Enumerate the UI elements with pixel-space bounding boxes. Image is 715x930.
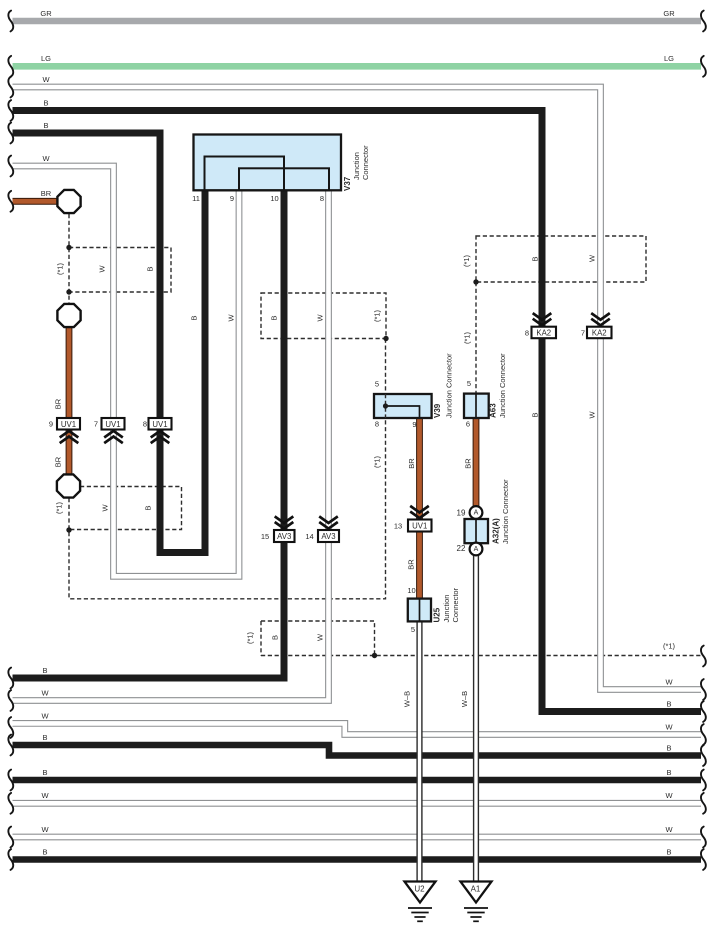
svg-text:UV1: UV1 bbox=[412, 522, 427, 531]
svg-text:Junction Connector: Junction Connector bbox=[501, 479, 510, 544]
svg-text:6: 6 bbox=[466, 420, 470, 429]
svg-text:AV3: AV3 bbox=[321, 532, 335, 541]
svg-text:10: 10 bbox=[407, 586, 415, 595]
svg-text:V39: V39 bbox=[433, 403, 442, 418]
svg-text:KA2: KA2 bbox=[536, 328, 551, 337]
svg-text:BR: BR bbox=[407, 458, 416, 469]
svg-text:Junction: Junction bbox=[442, 595, 451, 623]
svg-text:BR: BR bbox=[54, 398, 63, 409]
svg-text:A63: A63 bbox=[489, 403, 498, 418]
svg-text:Junction: Junction bbox=[352, 152, 361, 180]
svg-text:B: B bbox=[270, 315, 279, 320]
svg-text:5: 5 bbox=[411, 625, 415, 634]
svg-text:GR: GR bbox=[663, 9, 675, 18]
svg-text:A1: A1 bbox=[471, 885, 481, 894]
svg-text:B: B bbox=[666, 743, 671, 752]
svg-text:W: W bbox=[41, 688, 49, 697]
svg-text:W: W bbox=[665, 722, 673, 731]
svg-text:(*1): (*1) bbox=[462, 254, 471, 267]
svg-text:9: 9 bbox=[412, 420, 416, 429]
svg-text:(*1): (*1) bbox=[56, 262, 65, 275]
svg-text:UV1: UV1 bbox=[152, 420, 167, 429]
svg-text:B: B bbox=[666, 768, 671, 777]
svg-text:11: 11 bbox=[192, 194, 200, 203]
svg-text:8: 8 bbox=[320, 194, 324, 203]
svg-text:W: W bbox=[665, 825, 673, 834]
svg-text:13: 13 bbox=[394, 521, 402, 530]
svg-text:9: 9 bbox=[49, 420, 53, 429]
svg-text:(*1): (*1) bbox=[246, 631, 255, 644]
svg-text:A32(A): A32(A) bbox=[492, 518, 501, 544]
svg-text:UV1: UV1 bbox=[105, 420, 120, 429]
svg-text:B: B bbox=[531, 412, 540, 417]
svg-text:8: 8 bbox=[525, 328, 529, 337]
svg-text:B: B bbox=[271, 635, 280, 640]
svg-text:7: 7 bbox=[94, 420, 98, 429]
svg-text:UV1: UV1 bbox=[61, 420, 76, 429]
svg-text:W: W bbox=[41, 825, 49, 834]
svg-text:B: B bbox=[190, 315, 199, 320]
svg-text:B: B bbox=[42, 733, 47, 742]
svg-text:U2: U2 bbox=[414, 885, 425, 894]
svg-text:BR: BR bbox=[464, 458, 473, 469]
svg-text:Junction Connector: Junction Connector bbox=[498, 353, 507, 418]
svg-text:9: 9 bbox=[230, 194, 234, 203]
svg-text:B: B bbox=[43, 98, 48, 107]
svg-text:W–B: W–B bbox=[460, 691, 469, 707]
svg-text:AV3: AV3 bbox=[277, 532, 291, 541]
svg-text:B: B bbox=[42, 847, 47, 856]
svg-text:GR: GR bbox=[40, 9, 52, 18]
svg-text:W: W bbox=[227, 314, 236, 322]
svg-text:BR: BR bbox=[407, 559, 416, 570]
svg-text:B: B bbox=[531, 256, 540, 261]
svg-text:W: W bbox=[101, 504, 110, 512]
svg-text:LG: LG bbox=[664, 54, 674, 63]
svg-text:8: 8 bbox=[143, 420, 147, 429]
svg-text:U25: U25 bbox=[433, 607, 442, 622]
svg-text:7: 7 bbox=[581, 328, 585, 337]
svg-text:Junction Connector: Junction Connector bbox=[445, 353, 454, 418]
svg-text:W: W bbox=[41, 791, 49, 800]
svg-text:Connector: Connector bbox=[361, 145, 370, 180]
svg-text:KA2: KA2 bbox=[592, 328, 607, 337]
svg-text:W: W bbox=[316, 314, 325, 322]
svg-text:W: W bbox=[588, 254, 597, 262]
svg-text:5: 5 bbox=[375, 380, 379, 389]
svg-text:W: W bbox=[665, 677, 673, 686]
svg-text:B: B bbox=[42, 666, 47, 675]
svg-text:Connector: Connector bbox=[451, 587, 460, 622]
svg-text:14: 14 bbox=[305, 532, 313, 541]
svg-text:(*1): (*1) bbox=[55, 501, 64, 514]
svg-text:8: 8 bbox=[375, 420, 379, 429]
svg-text:BR: BR bbox=[41, 189, 52, 198]
svg-text:BR: BR bbox=[54, 456, 63, 467]
svg-text:W–B: W–B bbox=[403, 691, 412, 707]
svg-text:19: 19 bbox=[457, 509, 466, 518]
svg-text:B: B bbox=[144, 505, 153, 510]
svg-text:W: W bbox=[41, 711, 49, 720]
svg-text:15: 15 bbox=[261, 532, 269, 541]
svg-text:22: 22 bbox=[457, 544, 466, 553]
svg-text:V37: V37 bbox=[343, 176, 352, 191]
svg-text:A: A bbox=[474, 546, 479, 553]
svg-text:W: W bbox=[588, 411, 597, 419]
svg-text:(*1): (*1) bbox=[663, 642, 676, 651]
svg-text:B: B bbox=[43, 121, 48, 130]
svg-text:(*1): (*1) bbox=[373, 309, 382, 322]
svg-text:B: B bbox=[42, 768, 47, 777]
svg-text:W: W bbox=[42, 75, 50, 84]
svg-text:W: W bbox=[98, 265, 107, 273]
svg-text:B: B bbox=[666, 699, 671, 708]
svg-text:A: A bbox=[474, 510, 479, 517]
svg-text:B: B bbox=[146, 266, 155, 271]
svg-text:(*1): (*1) bbox=[463, 331, 472, 344]
svg-text:W: W bbox=[316, 633, 325, 641]
svg-text:5: 5 bbox=[467, 379, 471, 388]
svg-text:B: B bbox=[666, 847, 671, 856]
svg-text:LG: LG bbox=[41, 54, 51, 63]
svg-text:10: 10 bbox=[270, 194, 278, 203]
svg-text:(*1): (*1) bbox=[373, 455, 382, 468]
svg-text:W: W bbox=[42, 154, 50, 163]
svg-text:W: W bbox=[665, 791, 673, 800]
